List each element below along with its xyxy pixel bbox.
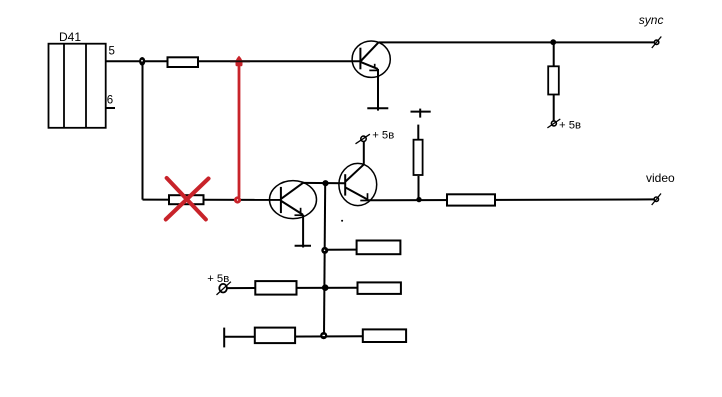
svg-text:sync: sync	[639, 13, 664, 27]
svg-text:video: video	[646, 171, 675, 185]
svg-text:6: 6	[107, 94, 113, 106]
svg-text:D41: D41	[59, 30, 81, 44]
svg-text:5: 5	[109, 45, 115, 57]
svg-text:+ 5в: + 5в	[207, 273, 229, 285]
svg-text:+ 5в: + 5в	[559, 120, 581, 132]
svg-text:+ 5в: + 5в	[372, 129, 394, 141]
